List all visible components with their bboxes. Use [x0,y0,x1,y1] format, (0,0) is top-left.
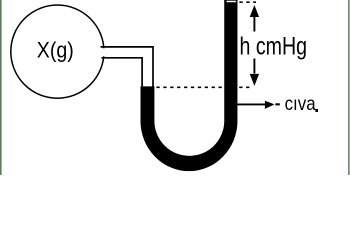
right tube top cap [224,0,237,2]
right green border line [348,0,349,175]
wire connecting tube bottom wall [102,58,143,88]
right tube right wall above mercury [236,0,238,3]
civa pointer arrow head [265,101,275,109]
civa pointer arrow tip dash [275,103,279,105]
top dashed level line [239,1,256,3]
svg-text:h cmHg: h cmHg [240,33,308,61]
lower dashed mercury level line [156,86,250,88]
tube opening erase on circle edge [96,48,106,56]
comma mark after civa [315,109,318,112]
dimension arrow up shaft [253,14,255,32]
dimension arrow up head [250,5,259,17]
wire connecting tube top wall [101,47,154,88]
svg-text:X(g): X(g) [37,38,74,63]
dimension arrow down shaft [253,59,255,74]
right tube left wall above mercury [224,0,226,3]
dimension arrow down head [250,74,259,86]
svg-text:cıva: cıva [285,93,316,115]
U-tube mercury fill [141,2,238,171]
gas bulb circle [11,5,104,98]
civa pointer arrow shaft [237,103,266,105]
left green border line [0,0,1,175]
